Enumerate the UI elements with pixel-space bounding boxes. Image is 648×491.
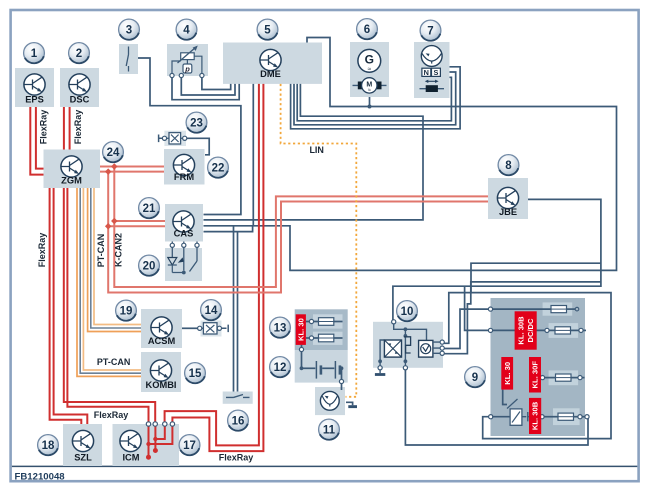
svg-text:KL. 30F: KL. 30F	[531, 361, 540, 389]
control unit CAS box	[165, 204, 203, 242]
svg-text:S: S	[433, 68, 438, 77]
box13 fuse2	[306, 337, 310, 339]
number circle 11	[319, 419, 340, 440]
ICM internal T2 stub	[154, 424, 156, 450]
wire to box16 left	[233, 226, 235, 392]
NS magnet boxes	[422, 68, 431, 76]
svg-text:PT-CAN: PT-CAN	[96, 234, 106, 268]
wire K-CAN2 to JBE lower	[108, 172, 488, 293]
svg-text:ICM: ICM	[122, 453, 139, 463]
svg-text:10: 10	[401, 306, 414, 318]
fuse box 13 strip 2	[313, 332, 343, 345]
number circle 2	[69, 43, 90, 64]
svg-text:FRM: FRM	[174, 172, 194, 182]
wire box6 drop	[369, 97, 371, 107]
wire to box16 right	[237, 232, 239, 392]
ICM terminal	[170, 422, 174, 426]
svg-text:11: 11	[323, 425, 336, 437]
svg-text:JBE: JBE	[499, 207, 517, 217]
box 9 fuse strip 1	[543, 302, 573, 315]
pressure sensor box 4	[167, 44, 208, 76]
voltage monitor box	[419, 340, 433, 357]
battery sensor X box	[384, 340, 401, 357]
svg-text:5: 5	[264, 25, 271, 37]
wire box10 pin1 long loop to relay	[444, 293, 612, 439]
box10 pin wires	[433, 342, 441, 353]
number circle 8	[498, 155, 519, 176]
number circle 7	[420, 20, 441, 41]
svg-text:18: 18	[42, 440, 55, 452]
ground box10	[379, 370, 381, 373]
motor symbol box6	[353, 84, 387, 86]
box 9 fuse strip 2	[549, 323, 579, 338]
ECU icon FRM	[173, 154, 194, 175]
svg-text:8: 8	[505, 160, 512, 172]
fuse box 13 strip 1	[313, 314, 343, 328]
bulb symbol box23	[159, 135, 163, 143]
wire FlexRay ZGM to ICM T2	[64, 188, 155, 424]
box9 row3 wire and fuse	[536, 377, 541, 379]
wire box7 pin3 to DME	[297, 77, 451, 121]
svg-text:G: G	[365, 53, 374, 67]
wire DME top loop to CAS via right side	[204, 38, 617, 271]
svg-text:3: 3	[126, 25, 132, 37]
junction K-CAN2	[111, 218, 118, 225]
svg-text:KL. 30: KL. 30	[503, 362, 512, 385]
box4 internal wires	[172, 56, 202, 75]
label KL.30F	[529, 357, 541, 393]
wire K-CAN2 ZGM to FRM lower	[100, 171, 164, 173]
CAS to box20 terminals	[172, 242, 197, 244]
junction K-CAN2	[105, 223, 112, 230]
number circle 18	[38, 435, 59, 456]
number circle 19	[116, 300, 137, 321]
valve icon box7	[421, 46, 442, 67]
label KL.30B DC/DC	[515, 311, 537, 349]
wire box9 row2 feed	[465, 286, 489, 330]
ICM terminal	[153, 422, 157, 426]
svg-text:FlexRay: FlexRay	[219, 453, 254, 463]
number circle 4	[176, 19, 197, 40]
ICM internal T3 link	[155, 424, 164, 439]
svg-text:FlexRay: FlexRay	[73, 110, 83, 145]
footer separator line	[12, 465, 637, 467]
svg-text:p: p	[184, 64, 190, 73]
svg-text:2: 2	[76, 48, 82, 60]
battery box 12	[295, 350, 348, 383]
svg-text:22: 22	[212, 163, 225, 175]
control unit ACSM box	[141, 309, 182, 348]
ECU icon KOMBI	[150, 360, 171, 381]
wire CAS line4 jog	[204, 226, 253, 232]
number circle 1	[24, 43, 45, 64]
switch box16	[226, 395, 250, 398]
number circle 6	[357, 19, 378, 40]
svg-text:24: 24	[107, 147, 120, 159]
svg-text:SZL: SZL	[74, 453, 92, 463]
svg-text:ZGM: ZGM	[61, 176, 82, 186]
magnet bar box7	[420, 88, 445, 90]
ECU icon DSC	[69, 74, 90, 95]
control unit DSC box	[60, 68, 99, 107]
wire box10 bottom to fuse row4	[405, 370, 588, 446]
control unit EPS box	[15, 68, 54, 107]
wire LIN dotted	[281, 84, 357, 397]
svg-text:FB1210048: FB1210048	[15, 472, 66, 483]
box10 left bracket	[380, 340, 384, 366]
squib symbol 14	[198, 326, 202, 330]
number circle 15	[185, 363, 206, 384]
control unit ZGM box	[44, 150, 101, 189]
ECU icon CAS	[173, 211, 194, 232]
valve box 11	[315, 387, 345, 415]
control unit ICM box	[113, 424, 180, 466]
ECU icon ZGM	[61, 156, 82, 177]
svg-text:13: 13	[274, 323, 287, 335]
ICM terminal	[146, 422, 150, 426]
wire box7 pin2 to DME	[294, 72, 456, 125]
wire K-CAN to ACSM line3	[94, 188, 141, 325]
number circle 3	[119, 19, 140, 40]
svg-text:PT-CAN: PT-CAN	[97, 357, 131, 367]
box10 internal top wire	[394, 324, 427, 341]
svg-text:DC/DC: DC/DC	[526, 318, 535, 343]
svg-text:19: 19	[120, 306, 133, 318]
immobilizer symbol box20	[172, 252, 197, 271]
wire box3 to CAS	[138, 58, 241, 215]
svg-text:6: 6	[364, 24, 370, 36]
double arrow	[427, 80, 436, 82]
svg-text:4: 4	[183, 25, 190, 37]
ECU icon EPS	[24, 74, 45, 95]
immobilizer box 20	[165, 248, 202, 281]
box9 row1 wire and fuse	[491, 308, 552, 310]
control unit FRM box	[164, 149, 205, 185]
wire PT-CAN to KOMBI line1	[77, 188, 141, 376]
label KL.30B	[529, 398, 541, 434]
svg-text:DSC: DSC	[70, 95, 90, 105]
box 9 fuse strip 3	[549, 370, 579, 385]
svg-text:KL. 30: KL. 30	[296, 318, 305, 341]
wire CAS to box7 column	[204, 84, 424, 220]
svg-text:17: 17	[183, 440, 196, 452]
wire DME down stub	[252, 84, 254, 226]
svg-text:≈: ≈	[368, 88, 371, 94]
wire PT-CAN to KOMBI line2	[80, 188, 141, 373]
wire box10 pin2 to box9 row1	[444, 309, 489, 348]
ICM internal T4 link	[149, 424, 173, 444]
number circle 22	[208, 157, 229, 178]
wire PT-CAN to KOMBI line3	[83, 188, 141, 370]
box10 top terminal	[392, 320, 396, 324]
control unit KOMBI box	[141, 352, 181, 392]
ICM internal T1 stub	[148, 424, 150, 456]
sensor step shape	[404, 337, 411, 353]
junction K-CAN2	[105, 168, 112, 175]
wire FlexRay EPS inner	[36, 107, 44, 169]
box10 bottom terminals	[378, 366, 382, 370]
bulb box 23 background	[164, 131, 186, 146]
wire FlexRay DME to ICM T4	[172, 84, 263, 451]
wire K-CAN to ACSM line1	[88, 188, 141, 332]
relay fuse	[540, 415, 544, 419]
battery cells	[300, 366, 304, 370]
variable resistor box4	[181, 53, 195, 60]
ECU icon ACSM	[151, 317, 172, 338]
ICM terminal	[163, 422, 167, 426]
svg-text:21: 21	[143, 203, 156, 215]
p sensor box4	[183, 64, 192, 73]
svg-text:≈: ≈	[368, 66, 372, 73]
relay coil wire from KL.30	[503, 390, 507, 405]
label KL.30 box9	[501, 357, 513, 390]
number circle 14	[201, 300, 222, 321]
svg-text:DME: DME	[260, 69, 281, 79]
control unit JBE box	[488, 178, 528, 219]
number circle 5	[257, 19, 278, 40]
number circle 20	[139, 255, 160, 276]
box4 terminals	[170, 73, 174, 77]
number circle 12	[270, 357, 291, 378]
wire box4 pin3 to DME	[202, 76, 231, 90]
box9 relay row wire	[489, 415, 493, 419]
wire K-CAN to ACSM line2	[91, 188, 141, 328]
squib 14 background	[201, 321, 222, 337]
svg-text:20: 20	[143, 261, 156, 273]
wire K-CAN2 to CAS upper	[114, 220, 165, 222]
number circle 21	[139, 198, 160, 219]
battery sensor box 10	[373, 322, 443, 368]
svg-text:KL. 30B: KL. 30B	[517, 316, 526, 345]
svg-text:LIN: LIN	[309, 145, 324, 155]
svg-text:14: 14	[205, 305, 218, 317]
svg-text:KL. 30B: KL. 30B	[531, 401, 540, 430]
svg-text:12: 12	[274, 362, 287, 374]
box13 to battery wire	[301, 345, 303, 348]
number circle 24	[103, 142, 124, 163]
control unit SZL box	[63, 424, 102, 466]
box13 fuse1	[306, 321, 310, 323]
wire FlexRay ZGM to SZL right	[54, 188, 88, 424]
control unit DME box	[223, 43, 322, 84]
ECU icon SZL	[72, 430, 93, 451]
wire FlexRay ZGM to ICM T1	[67, 188, 148, 424]
wire box10 pin3	[444, 282, 602, 354]
wire FlexRay DME to ICM T3	[165, 84, 259, 446]
battery to box11 wire	[341, 368, 343, 380]
wire K-CAN2 to CAS lower	[108, 225, 165, 227]
wire K-CAN2 to JBE upper	[114, 167, 488, 288]
wire box4 pin1 to DME	[172, 76, 239, 100]
wire FlexRay DSC pair	[64, 107, 70, 150]
wire JBE loop to box10 top	[393, 199, 601, 320]
valve icon box11	[320, 391, 339, 410]
number circle 10	[397, 301, 418, 322]
wire K-CAN2 ZGM to FRM upper	[100, 166, 164, 168]
number circle 9	[465, 367, 486, 388]
switch box 3	[119, 44, 138, 74]
svg-text:ACSM: ACSM	[148, 336, 176, 346]
svg-text:9: 9	[472, 372, 478, 384]
wire box7 pin1 to DME	[291, 67, 461, 129]
generator box 6	[350, 42, 389, 97]
svg-text:EPS: EPS	[25, 95, 44, 105]
wire box4 pin2 to DME	[181, 76, 235, 96]
junction K-CAN2	[111, 163, 118, 170]
number circle 17	[179, 435, 200, 456]
svg-text:FlexRay: FlexRay	[94, 410, 129, 420]
wire ACSM to squib14	[182, 327, 198, 329]
number circle 16	[228, 410, 249, 431]
box10 center wire	[404, 329, 406, 367]
ECU icon ICM	[120, 430, 141, 451]
wire branch y263	[471, 263, 601, 293]
ECU icon JBE	[497, 187, 518, 208]
svg-text:FlexRay: FlexRay	[38, 110, 48, 145]
svg-text:16: 16	[232, 416, 245, 428]
svg-text:FlexRay: FlexRay	[37, 233, 47, 268]
switch box3	[126, 47, 128, 72]
power distribution box 9	[491, 298, 586, 436]
junction box6	[368, 105, 372, 109]
actuator box 7	[414, 42, 450, 98]
wire FlexRay ZGM to SZL left	[50, 188, 82, 424]
svg-text:N: N	[424, 68, 429, 77]
box9 row2 wire and fuse	[491, 329, 546, 331]
generator G symbol	[358, 49, 381, 72]
ECU icon DME	[260, 49, 281, 70]
svg-text:1: 1	[31, 48, 38, 60]
svg-text:KOMBI: KOMBI	[146, 380, 177, 390]
svg-text:K-CAN2: K-CAN2	[114, 233, 124, 267]
wire box23 to FRM	[187, 138, 209, 155]
relay K	[510, 409, 522, 425]
number circle 23	[186, 112, 207, 133]
wire FlexRay EPS outer	[30, 107, 43, 175]
fuse box 13 (dark)	[295, 309, 348, 350]
number circle 13	[270, 317, 291, 338]
svg-text:7: 7	[427, 26, 433, 38]
switch box 16	[223, 392, 253, 404]
svg-text:CAS: CAS	[174, 228, 194, 238]
svg-text:15: 15	[189, 368, 202, 380]
box 9 fuse strip 4	[553, 408, 580, 425]
svg-text:23: 23	[190, 118, 203, 130]
label KL.30 box13	[296, 314, 306, 345]
antenna symbol right of box11	[346, 402, 353, 405]
